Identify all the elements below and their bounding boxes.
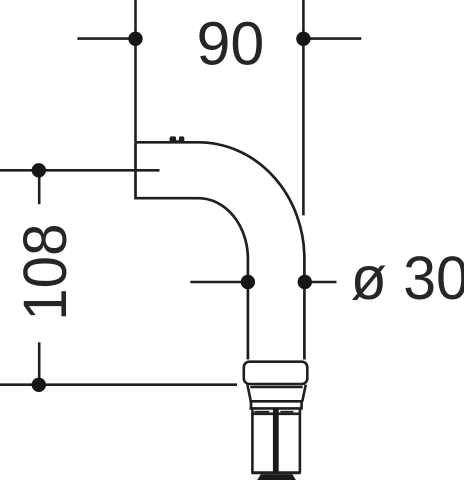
svg-text:90: 90 — [196, 9, 264, 77]
svg-text:108: 108 — [11, 224, 79, 321]
svg-text:ø 30: ø 30 — [351, 244, 464, 312]
